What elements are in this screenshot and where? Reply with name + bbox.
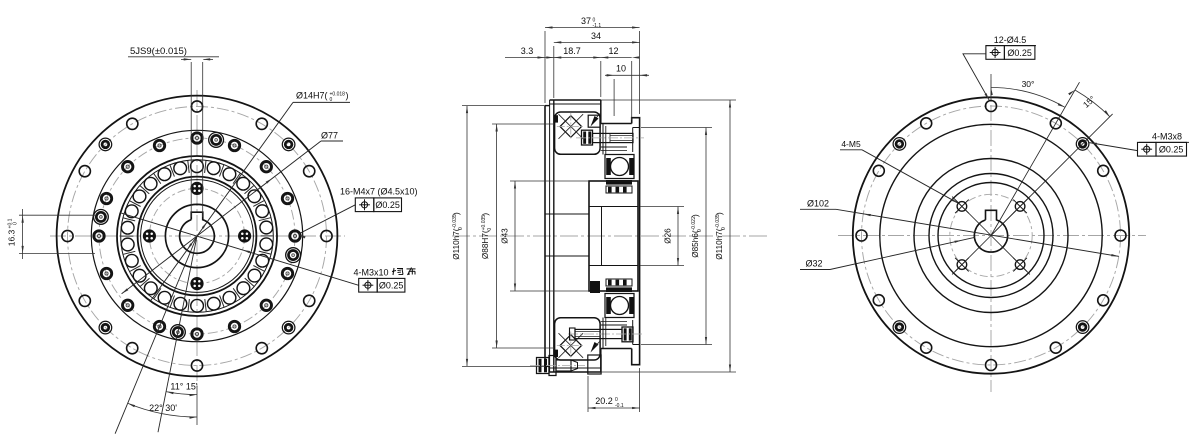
svg-text:Ø14H7(: Ø14H7( — [296, 91, 328, 101]
svg-text:5JS9(±0.015): 5JS9(±0.015) — [130, 46, 187, 57]
svg-text:30°: 30° — [1022, 79, 1035, 89]
svg-text:3.3: 3.3 — [521, 46, 534, 56]
svg-text:Ø102: Ø102 — [807, 199, 829, 209]
svg-text:18.7: 18.7 — [563, 46, 581, 56]
svg-text:Ø26: Ø26 — [664, 228, 673, 244]
svg-text:): ) — [346, 91, 349, 101]
svg-text:22° 30': 22° 30' — [149, 403, 177, 413]
svg-text:-0.1: -0.1 — [615, 403, 624, 409]
svg-text:Ø0.25: Ø0.25 — [1007, 48, 1032, 58]
svg-text:-1.1: -1.1 — [593, 23, 602, 29]
svg-text:12-Ø4.5: 12-Ø4.5 — [994, 35, 1027, 45]
svg-text:12: 12 — [608, 46, 618, 56]
svg-text:11° 15': 11° 15' — [170, 382, 197, 392]
svg-text:Ø0.25: Ø0.25 — [375, 200, 400, 210]
svg-text:Ø43: Ø43 — [501, 228, 510, 244]
svg-text:16.3: 16.3 — [7, 229, 17, 246]
svg-text:Ø0.25: Ø0.25 — [1159, 145, 1184, 155]
svg-text:10: 10 — [616, 64, 626, 74]
svg-text:4-M3x8: 4-M3x8 — [1152, 132, 1182, 142]
svg-text:Ø0.25: Ø0.25 — [379, 281, 404, 291]
svg-text:16-M4x7 (Ø4.5x10): 16-M4x7 (Ø4.5x10) — [340, 187, 418, 197]
svg-text:Ø77: Ø77 — [321, 131, 338, 141]
svg-text:34: 34 — [591, 31, 601, 41]
svg-text:Ø32: Ø32 — [805, 259, 822, 269]
svg-text:0: 0 — [13, 222, 19, 225]
svg-text:4-M5: 4-M5 — [841, 139, 861, 149]
svg-text:37: 37 — [581, 16, 591, 26]
svg-text:4-M3x10: 4-M3x10 — [354, 268, 389, 278]
svg-text:20.2: 20.2 — [595, 396, 613, 406]
